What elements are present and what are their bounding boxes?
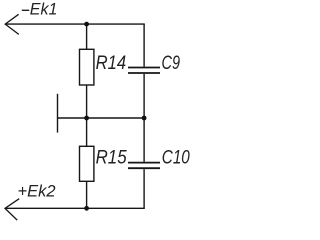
resistor R15: [80, 146, 94, 181]
node: middle junction at R branch: [84, 116, 89, 121]
capacitor C10: [128, 163, 160, 169]
wire: top rail -Ek1: [5, 23, 145, 25]
svg-text:R15: R15: [96, 148, 127, 169]
capacitor C9: [128, 68, 160, 74]
node: middle junction at C branch: [142, 116, 147, 121]
resistor R14: [80, 49, 94, 85]
terminal bar (tap stub): [57, 94, 59, 133]
arrow -Ek1 terminal: [5, 14, 19, 34]
svg-text:C10: C10: [162, 148, 190, 169]
wire: R14 bottom to R15 top through middle node: [86, 85, 88, 146]
wire: left branch top (node to R14): [86, 24, 88, 49]
wire: bottom rail +Ek2: [5, 207, 145, 209]
node: top junction: [84, 22, 89, 27]
wire: top right corner down to C9: [143, 24, 145, 67]
node: bottom junction: [84, 206, 89, 211]
svg-text:+Ek2: +Ek2: [18, 182, 56, 200]
wire: C10 bottom to bottom rail corner: [143, 169, 145, 208]
svg-text:C9: C9: [162, 53, 181, 74]
wire: R15 bottom to bottom rail: [86, 181, 88, 208]
svg-text:R14: R14: [96, 53, 127, 74]
wire: middle tap rail: [58, 117, 145, 119]
arrow +Ek2 terminal: [5, 199, 19, 220]
label -Ek1 minus sign: [22, 9, 29, 11]
svg-text:Ek1: Ek1: [30, 1, 58, 19]
wire: C9 bottom to C10 top through middle node: [143, 74, 145, 162]
